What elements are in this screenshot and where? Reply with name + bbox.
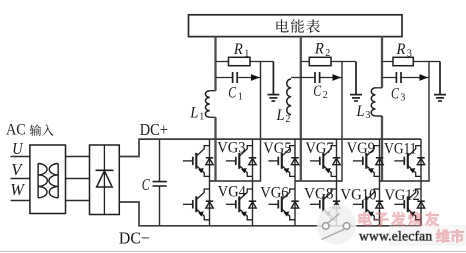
svg-text:VG8: VG8: [304, 185, 334, 203]
svg-text:W: W: [10, 180, 26, 199]
resistor R2: [309, 57, 331, 65]
transistor VG4 bottom: [226, 189, 256, 220]
wire inverter leg 3: [294, 139, 296, 226]
inductor L3: [371, 88, 375, 116]
transistor VG12 bottom: [394, 189, 424, 220]
wire inverter leg 6: [420, 139, 422, 226]
svg-text:VG7: VG7: [305, 139, 333, 157]
transistor VG1 top: [183, 146, 213, 177]
svg-text:1: 1: [238, 92, 243, 103]
svg-text:VG5: VG5: [263, 139, 291, 157]
svg-text:2: 2: [323, 90, 328, 101]
svg-text:VG3: VG3: [217, 139, 245, 157]
wire phase branch 2 from meter: [300, 37, 302, 182]
svg-text:2: 2: [285, 114, 290, 125]
watermark logo circle: [317, 205, 357, 245]
transformer box: [30, 145, 66, 214]
transistor VG5 top: [268, 146, 298, 177]
svg-text:VG9: VG9: [347, 139, 375, 157]
wire node B1 vertical: [210, 62, 261, 182]
svg-text:DC−: DC−: [119, 228, 150, 247]
svg-text:VG10: VG10: [340, 186, 376, 204]
capacitor C2 plates: [315, 72, 320, 83]
svg-text:VG4: VG4: [218, 182, 246, 200]
capacitor C dc-link: [159, 139, 161, 226]
svg-text:AC: AC: [6, 121, 26, 138]
wire C level branch 2: [301, 77, 342, 79]
transistor VG10 bottom: [353, 189, 383, 220]
wire R level branch 2: [301, 61, 356, 63]
resistor R1: [229, 57, 251, 65]
svg-text:C: C: [391, 84, 400, 103]
wire phase jog to leg: [295, 180, 301, 182]
watermark red text line2: [436, 229, 450, 243]
svg-text:3: 3: [365, 110, 370, 121]
wire V: [11, 178, 30, 180]
arrow on C level branch 1: [251, 74, 260, 81]
resistor R3: [393, 57, 413, 65]
svg-text:L: L: [356, 101, 365, 120]
svg-text:L: L: [276, 105, 285, 124]
transformer primary winding: [38, 164, 47, 198]
svg-text:R: R: [396, 39, 406, 58]
wire DC- rail: [119, 202, 421, 226]
svg-text:DC+: DC+: [140, 120, 168, 139]
svg-text:1: 1: [244, 49, 249, 60]
transistor VG7 top: [310, 146, 340, 177]
ground branch 2: [350, 62, 362, 102]
wire DC+ rail: [119, 139, 421, 156]
wire phase branch 1 from meter: [214, 37, 216, 91]
wire R level branch 3: [382, 61, 440, 63]
capacitor C1 plates: [233, 72, 238, 83]
watermark band box: [390, 226, 466, 245]
transformer secondary winding: [49, 164, 58, 198]
wire phase branch 3 from meter: [381, 37, 383, 88]
svg-text:C: C: [313, 81, 322, 100]
svg-text:3: 3: [400, 93, 405, 104]
inductor L2: [287, 79, 291, 115]
transistor VG11 top: [394, 146, 424, 177]
energy meter box 电能表: [189, 15, 403, 37]
arrow on C level branch 3: [420, 74, 429, 81]
wire inductor jogs: [375, 88, 382, 116]
svg-text:1: 1: [199, 112, 204, 123]
rectifier diode: [96, 169, 114, 171]
arrow on C level branch 2: [333, 74, 342, 81]
inductor L1: [205, 91, 209, 118]
svg-text:VG11: VG11: [384, 139, 416, 157]
label AC input: [6, 121, 54, 138]
transistor VG8 bottom: [310, 189, 340, 220]
wire inverter leg 2: [252, 139, 254, 226]
capacitor C3 plates: [396, 72, 401, 83]
wire inductor L2 top jog: [291, 77, 301, 79]
svg-text:U: U: [12, 139, 24, 158]
wire W: [11, 200, 30, 202]
svg-text:C: C: [142, 175, 151, 194]
svg-text:C: C: [228, 83, 237, 102]
wire node B3 vertical: [380, 62, 430, 182]
transistor VG9 top: [353, 146, 383, 177]
wires transformer to rectifier: [66, 157, 90, 201]
transistor VG2 bottom: [183, 189, 213, 220]
wire C level branch 1: [216, 77, 261, 79]
ground branch 1: [267, 62, 279, 102]
rectifier box: [90, 145, 120, 215]
svg-text:L: L: [189, 102, 198, 121]
transistor VG3 top: [226, 146, 256, 177]
svg-text:VG12: VG12: [385, 186, 420, 204]
svg-text:R: R: [233, 39, 243, 58]
wire inductor jogs: [210, 91, 216, 118]
wire inverter leg 5: [379, 139, 381, 226]
svg-text:V: V: [11, 160, 23, 179]
wire inverter leg 4: [336, 139, 338, 226]
svg-text:www.elecfan: www.elecfan: [359, 228, 432, 243]
ground branch 3: [434, 62, 446, 102]
bottom hairline: [0, 250, 466, 252]
wire phase jog to leg: [210, 180, 216, 182]
svg-text:2: 2: [325, 48, 330, 59]
wire R level branch 1: [216, 61, 274, 63]
wire C level branch 3: [382, 77, 429, 79]
watermark red text line1: [359, 212, 372, 226]
wire node B2 vertical: [295, 62, 342, 182]
rectifier center line: [103, 145, 105, 215]
svg-text:R: R: [314, 39, 324, 58]
transistor VG6 bottom: [268, 189, 298, 220]
wire U: [11, 156, 30, 158]
wire phase jog to leg: [380, 180, 383, 182]
svg-text:VG6: VG6: [260, 183, 288, 201]
svg-text:3: 3: [407, 49, 412, 60]
wire inverter leg 1: [209, 139, 211, 226]
